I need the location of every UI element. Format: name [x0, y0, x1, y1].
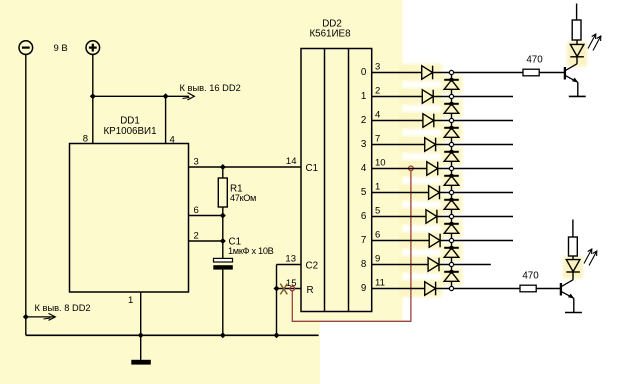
capacitor C1 top plate — [214, 258, 233, 262]
wire minus rail vertical — [25, 54, 27, 335]
node circle row 2 — [449, 118, 453, 122]
svg-text:4: 4 — [375, 110, 380, 121]
wire R1 top lead — [222, 167, 224, 178]
svg-text:6: 6 — [361, 211, 367, 222]
svg-text:DD1: DD1 — [120, 116, 140, 127]
svg-text:КР1006ВИ1: КР1006ВИ1 — [103, 126, 156, 137]
junction minus arrow — [23, 314, 29, 320]
counter DD2 K561IE8 box — [301, 49, 372, 312]
wire output 7 to diode — [372, 240, 430, 242]
matrix diode column element 2 — [444, 123, 459, 143]
wire R1 bottom to C1 — [222, 207, 224, 258]
diode VD row 2 — [423, 114, 434, 128]
ground symbol bar — [131, 360, 151, 365]
red node circle at output 4 — [409, 166, 414, 171]
wire DD1 pin 3 to DD2 pin 14 — [189, 166, 302, 168]
junction pin3/R1 — [220, 164, 226, 170]
wire output 3 to diode — [372, 144, 425, 146]
yellow highlight streaks behind matrix diodes — [399, 64, 463, 297]
wire output 9 to diode — [372, 288, 425, 290]
wire row 8 — [439, 264, 491, 266]
svg-text:9 В: 9 В — [54, 43, 68, 54]
wire resistor up bottom — [572, 220, 574, 238]
wire collector to LED bottom — [572, 272, 574, 280]
svg-text:1: 1 — [128, 295, 133, 306]
node circle row 9 — [449, 286, 453, 290]
battery positive terminal — [86, 41, 100, 55]
svg-text:3: 3 — [194, 157, 199, 168]
svg-text:К выв. 16 DD2: К выв. 16 DD2 — [180, 83, 241, 93]
diode VD row 8 — [428, 258, 439, 272]
node circle row 0 — [449, 70, 453, 74]
svg-text:6: 6 — [194, 205, 199, 216]
emitter terminal bar top — [569, 95, 586, 97]
wire row 9 to resistor 470 — [436, 288, 520, 290]
battery negative terminal — [19, 41, 33, 55]
svg-text:5: 5 — [361, 187, 367, 198]
diode VD row 3 — [425, 138, 436, 152]
wire output 6 to diode — [372, 216, 426, 218]
svg-text:9: 9 — [361, 283, 366, 294]
wire emitter down bottom — [573, 298, 575, 312]
op-amp timer DD1 KR1006VI1 box — [70, 144, 189, 293]
svg-text:1: 1 — [361, 91, 366, 102]
wire C1 to ground rail — [222, 270, 224, 336]
svg-text:К выв. 8 DD2: К выв. 8 DD2 — [35, 303, 91, 313]
red X cut mark on R wire — [280, 284, 287, 295]
svg-text:7: 7 — [361, 235, 366, 246]
diode VD row 7 — [429, 234, 440, 248]
svg-text:10: 10 — [375, 158, 386, 169]
wire resistor to top edge — [576, 4, 578, 21]
wire row 5 — [440, 192, 514, 194]
ground rail — [26, 334, 319, 336]
svg-text:13: 13 — [285, 254, 296, 265]
svg-text:3: 3 — [375, 62, 380, 73]
resistor 470 top — [523, 69, 539, 76]
svg-text:0: 0 — [361, 67, 367, 78]
junction rail R-wire — [274, 332, 280, 338]
svg-text:C2: C2 — [306, 261, 319, 272]
svg-text:2: 2 — [194, 231, 199, 242]
node circle row 4 — [449, 166, 453, 170]
node circle row 6 — [449, 214, 453, 218]
diode VD row 5 — [429, 186, 440, 200]
svg-text:8: 8 — [83, 134, 88, 145]
wire rail to DD1 pin 4 — [165, 96, 167, 143]
wire 470 to base — [539, 72, 564, 74]
matrix diode column element 7 — [444, 243, 459, 263]
wire row 6 — [437, 216, 513, 218]
wire output 1 to diode — [372, 96, 423, 98]
LED arrows bottom — [584, 249, 597, 266]
matrix diode column element 4 — [444, 171, 459, 191]
LED arrows top — [588, 34, 601, 51]
svg-text:К561ИЕ8: К561ИЕ8 — [309, 28, 351, 39]
arrow to pin 8 DD2 — [26, 313, 56, 320]
matrix diode column element 6 — [444, 219, 459, 239]
matrix diode column element 3 — [444, 147, 459, 167]
wire DD1 pin 6 — [189, 215, 223, 217]
svg-text:47кОм: 47кОм — [230, 193, 256, 203]
capacitor C1 bottom plate — [213, 265, 233, 269]
wire R pin15 — [277, 288, 302, 290]
svg-text:5: 5 — [375, 206, 380, 217]
LED halo top — [567, 42, 587, 67]
wire plus rail horizontal — [93, 95, 189, 97]
svg-text:1мкФ x 10В: 1мкФ x 10В — [228, 246, 274, 256]
diode VD row 9 — [425, 282, 436, 296]
wire output 5 to diode — [372, 192, 429, 194]
svg-text:11: 11 — [375, 278, 385, 289]
yellow background region top-middle — [318, 0, 403, 322]
wire output 0 to diode — [372, 72, 422, 74]
wire R junction down to rail — [276, 289, 278, 336]
wire LED to resistor top — [576, 40, 578, 44]
svg-text:3: 3 — [361, 139, 367, 150]
wire row 0 to resistor 470 — [433, 72, 523, 74]
wire row 3 — [436, 144, 513, 146]
transistor Q1 — [565, 64, 578, 83]
red node circle at pin 15 — [290, 286, 295, 291]
wire row 2 — [434, 120, 513, 122]
wire 470 to base bottom — [536, 288, 560, 290]
matrix diode column element 1 — [444, 99, 459, 119]
resistor collector load bottom — [569, 237, 578, 256]
svg-text:1: 1 — [375, 182, 380, 193]
svg-text:470: 470 — [522, 270, 539, 281]
resistor collector load top — [572, 20, 581, 40]
node circle row 8 — [449, 262, 453, 266]
diode VD row 1 — [422, 90, 433, 104]
svg-text:2: 2 — [361, 115, 366, 126]
resistor 470 bottom — [520, 285, 536, 292]
emitter terminal bar bottom — [565, 312, 582, 314]
svg-text:2: 2 — [375, 86, 380, 97]
wire row 7 — [440, 240, 513, 242]
DD2 internal divider 1 — [324, 49, 326, 312]
DD2 internal divider 2 — [348, 49, 350, 312]
wire plus vertical to DD1 pin 8 — [92, 54, 94, 143]
node circle row 7 — [449, 238, 453, 242]
junction rail C1 — [220, 332, 226, 338]
wire row 4 — [438, 168, 513, 170]
svg-text:7: 7 — [375, 134, 380, 145]
wire LED to resistor bottom — [572, 256, 574, 260]
junction rail pin1 — [138, 332, 144, 338]
diode VD row 0 — [422, 66, 433, 80]
wire collector to LED — [576, 57, 578, 64]
svg-text:8: 8 — [361, 259, 367, 270]
junction pin6/R1 — [220, 213, 226, 219]
ground symbol stub — [140, 335, 142, 360]
svg-text:9: 9 — [375, 254, 380, 265]
node circle row 3 — [449, 142, 453, 146]
svg-text:6: 6 — [375, 230, 380, 241]
matrix diode column element 5 — [444, 195, 459, 215]
wire output 4 to diode — [372, 168, 427, 170]
diode VD row 6 — [426, 210, 437, 224]
svg-text:14: 14 — [286, 156, 297, 167]
wire C2 pin13 — [277, 264, 302, 266]
junction plus/rail — [90, 93, 96, 99]
LED halo bottom — [563, 257, 583, 279]
svg-text:470: 470 — [526, 54, 543, 65]
svg-text:4: 4 — [361, 163, 367, 174]
node circle row 1 — [449, 94, 453, 98]
junction R wire — [274, 286, 280, 292]
junction pin2/C1 — [220, 238, 226, 244]
wire output 8 to diode — [372, 264, 428, 266]
arrow to pin 16 DD2 — [183, 93, 195, 100]
LED VD bottom — [566, 260, 580, 272]
matrix diode column element 0 — [444, 75, 459, 95]
resistor R1 — [218, 178, 227, 207]
transistor Q2 — [561, 280, 574, 299]
wire DD1 pin 2 — [189, 240, 223, 242]
node circle row 5 — [449, 190, 453, 194]
svg-text:4: 4 — [170, 135, 175, 146]
wire DD1 pin1 down — [140, 292, 142, 335]
yellow background region left — [0, 0, 320, 384]
wire emitter down — [577, 82, 579, 96]
matrix diode column element 8 — [444, 267, 459, 287]
junction rail/pin4 — [163, 93, 169, 99]
wire output 2 to diode — [372, 120, 423, 122]
red rewire: pin15 to output 4 — [292, 171, 411, 322]
wire row 1 — [433, 96, 513, 98]
LED VD top — [570, 44, 584, 56]
svg-text:R: R — [307, 285, 314, 296]
diode VD row 4 — [427, 162, 438, 176]
svg-text:C1: C1 — [306, 163, 319, 174]
